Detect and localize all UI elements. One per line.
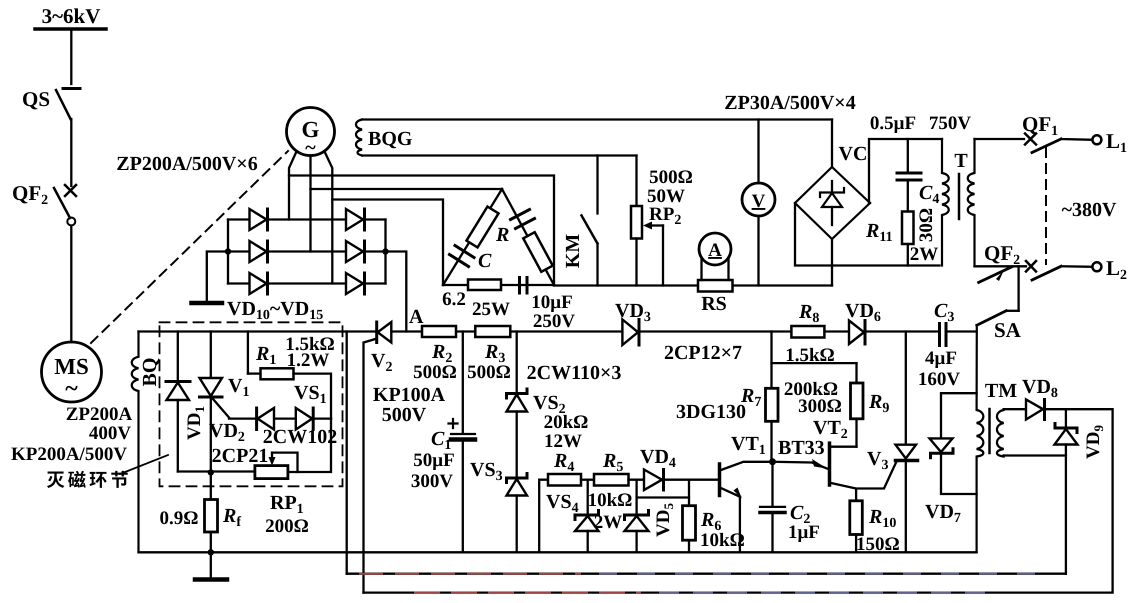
svg-text:RS: RS (701, 293, 727, 315)
excitation box bottom wire (139, 551, 977, 553)
svg-text:ZP200A/500V×6: ZP200A/500V×6 (116, 153, 257, 175)
RC network bottom resistor 6.2 25W (443, 280, 554, 291)
field winding BQ on left edge of excitation box (132, 332, 139, 553)
label 灭磁环节 (47, 472, 64, 489)
junction dot VT1 collector (769, 458, 776, 465)
capacitor C1 branch (449, 332, 476, 553)
de-excitation dashed box (160, 322, 343, 486)
resistor R5 (594, 474, 629, 486)
wire QF1 to L1 (1061, 138, 1092, 141)
svg-text:10kΩ: 10kΩ (588, 490, 633, 511)
svg-text:4μF: 4μF (925, 348, 957, 369)
svg-text:VC: VC (839, 143, 868, 165)
zener VS1a (2CW102) (257, 408, 274, 430)
dashed link QF1-QF2 (1045, 148, 1047, 264)
junction dot V1 cathode (208, 469, 214, 475)
resistor R7 branch (766, 332, 779, 462)
wire VD8 to right edge and trigger line3 (364, 409, 1113, 592)
svg-text:10μF: 10μF (531, 292, 572, 313)
wire T secondary bottom to QF2 (975, 265, 1027, 267)
svg-text:750V: 750V (929, 113, 972, 134)
resistor R11 (902, 212, 914, 266)
ground (195, 552, 227, 579)
ammeter A (699, 233, 731, 280)
svg-text:V: V (752, 191, 766, 212)
svg-text:KP200A/500V: KP200A/500V (11, 444, 127, 465)
auxiliary blade QF2 with arrow (979, 267, 1012, 283)
svg-text:BQ: BQ (139, 358, 161, 387)
svg-text:25W: 25W (472, 299, 510, 320)
wire TM secondary bottom to VD9 anode (1004, 454, 1066, 456)
transformer TM core (988, 409, 991, 453)
thyristor V3 (856, 332, 917, 553)
svg-text:A: A (409, 306, 424, 328)
breaker QF1 blade (1032, 139, 1061, 153)
svg-text:500Ω: 500Ω (649, 167, 693, 188)
thyristor V2 (364, 322, 392, 593)
rheostat RP2 (631, 156, 642, 286)
wire R4-R5 junction (581, 479, 594, 481)
svg-text:BQG: BQG (368, 128, 413, 150)
excitation box top wire (139, 330, 940, 332)
svg-text:1μF: 1μF (788, 522, 820, 543)
svg-text:TM: TM (985, 380, 1017, 402)
svg-text:2CW102: 2CW102 (263, 426, 337, 448)
wire VC left vertex down and right (795, 203, 940, 266)
diode VD14 (346, 241, 365, 262)
wire negative bus to terminal bar (207, 252, 228, 302)
breaker QF2 (HV) (54, 185, 76, 226)
zener VS2 (507, 332, 528, 479)
thyristor V1 (200, 332, 230, 473)
capacitor C2 (760, 462, 785, 553)
RC network triangle: right side C (502, 189, 554, 285)
resistor R8 (791, 326, 824, 338)
svg-text:KP100A: KP100A (373, 384, 446, 406)
svg-text:R: R (495, 224, 509, 246)
unijunction transistor VT2 (773, 443, 857, 501)
svg-text:2W: 2W (910, 244, 939, 265)
resistor Rf (205, 472, 218, 552)
resistor R2 (422, 326, 456, 337)
wire BQG top to VC (831, 120, 833, 168)
trigger return line2 (347, 573, 1066, 575)
wire phase1 horizontal (289, 176, 554, 286)
potentiometer RP1 (255, 419, 331, 479)
breaker QF1 contact x (1025, 134, 1036, 145)
wire top bus to trigger return line2 (346, 332, 348, 574)
winding BQG (356, 120, 832, 156)
diode VD13 (346, 209, 365, 230)
svg-text:500Ω: 500Ω (413, 362, 457, 383)
rectifier bridge VD10~VD15 left bus (227, 220, 229, 284)
svg-text:6.2: 6.2 (442, 289, 466, 310)
wire HV drop (70, 29, 72, 84)
motor MS (42, 342, 102, 402)
svg-text:0.5μF: 0.5μF (870, 113, 916, 134)
RP2 wiper arrow (643, 222, 663, 286)
zener VS4 branch (575, 480, 599, 553)
switch KM (582, 156, 598, 286)
diode VD4 (644, 470, 719, 491)
terminal L2 (1092, 262, 1101, 271)
transformer T primary (942, 139, 949, 266)
resistor R1 (248, 332, 331, 419)
svg-text:300Ω: 300Ω (798, 396, 842, 417)
terminal L1 (1092, 135, 1101, 144)
svg-text:~380V: ~380V (1062, 199, 1117, 221)
bridge row 3 wire (228, 282, 386, 284)
resistor R4 (548, 474, 581, 486)
wire phase2 horizontal (311, 188, 503, 190)
wire SA to TM primary (box right edge) (977, 325, 984, 552)
transformer TM secondary (997, 409, 1004, 456)
svg-text:T: T (954, 150, 968, 172)
wire VC bottom to bus (831, 239, 833, 286)
svg-text:500V: 500V (382, 404, 427, 426)
zener row wire (229, 417, 331, 419)
diode VD10 (250, 209, 268, 230)
diode VD3 (622, 320, 639, 346)
svg-text:C: C (478, 250, 492, 272)
svg-text:0.9Ω: 0.9Ω (160, 508, 199, 529)
switch SA (977, 266, 1019, 325)
zener VD7 parallel to TM primary (930, 393, 977, 494)
capacitor C4 (897, 139, 921, 212)
wire phase3 horizontal (332, 200, 443, 286)
shunt RS (698, 280, 733, 292)
bus wire bottom of AC section (554, 284, 698, 286)
busbar 3~6kV (35, 27, 106, 31)
svg-text:1.5kΩ: 1.5kΩ (785, 345, 835, 366)
junction dot Rf bottom (208, 549, 214, 555)
diode VD12 (250, 273, 268, 294)
voltmeter V (742, 120, 775, 286)
svg-text:~: ~ (65, 376, 78, 402)
zener VD5 branch (625, 480, 690, 553)
wire positive bus to node A (386, 252, 407, 332)
generator G (287, 108, 335, 160)
svg-text:250V: 250V (533, 311, 576, 332)
svg-text:2CP12×7: 2CP12×7 (664, 342, 742, 364)
wire G phase2 (309, 156, 311, 252)
svg-text:KM: KM (562, 234, 584, 269)
svg-text:ZP30A/500V×4: ZP30A/500V×4 (724, 92, 855, 114)
wire R4 left lead to bottom (539, 480, 548, 553)
wire QF2-MS (70, 226, 72, 343)
wire T secondary top to QF1 (975, 138, 1025, 140)
wire G phase1 (289, 153, 296, 220)
wire TM secondary top to VD8 (1004, 408, 1026, 410)
svg-text:500Ω: 500Ω (467, 362, 511, 383)
RC network triangle: left side C (450, 246, 475, 267)
zener VS3 (507, 474, 528, 553)
bridge row 1 wire (228, 218, 386, 220)
transformer T core (958, 174, 961, 219)
svg-text:3~6kV: 3~6kV (42, 4, 101, 28)
RC network triangle: left side R (443, 189, 502, 285)
svg-text:150Ω: 150Ω (856, 534, 900, 555)
svg-text:300V: 300V (411, 471, 454, 492)
svg-text:QS: QS (22, 87, 50, 111)
svg-text:ZP200A: ZP200A (66, 404, 133, 425)
diode VD1 branch (166, 332, 190, 472)
breaker QF2 contact x (1026, 261, 1036, 272)
breaker QF2 blade (1032, 266, 1061, 280)
svg-text:VD10~VD15: VD10~VD15 (227, 298, 323, 323)
watermark tint on trigger lines (360, 574, 1040, 593)
terminal bar (negative output) (192, 301, 223, 306)
svg-text:200Ω: 200Ω (265, 516, 309, 537)
wire QS-QF2 (70, 119, 72, 186)
svg-text:SA: SA (994, 318, 1022, 342)
junction dot negative bus (225, 248, 231, 254)
RC network triangle: right side R (523, 232, 553, 272)
diode VD15 (346, 273, 365, 294)
zener VS1b (2CW102) (296, 408, 313, 430)
wire G phase3 (325, 153, 332, 284)
resistor R9 (851, 363, 864, 447)
zener VD9 (1055, 409, 1078, 574)
wire QF2 to L2 (1061, 265, 1092, 268)
transformer T secondary (968, 139, 975, 266)
resistor R3 (475, 326, 510, 337)
svg-text:20kΩ: 20kΩ (544, 412, 589, 433)
RC network bottom capacitor 10uF (520, 278, 528, 294)
junction dot positive bus (382, 248, 388, 254)
dashed link MS-G (91, 151, 288, 343)
bridge row 2 wire (228, 250, 386, 252)
svg-text:3DG130: 3DG130 (676, 401, 746, 423)
svg-text:2CW110×3: 2CW110×3 (527, 362, 622, 384)
svg-text:400V: 400V (89, 423, 132, 444)
diode VD11 (250, 241, 268, 262)
transistor VT1 (720, 462, 773, 553)
resistor R6 (683, 480, 696, 553)
svg-text:2CP21: 2CP21 (212, 445, 269, 467)
svg-text:10kΩ: 10kΩ (700, 530, 745, 551)
leader line to de-excitation box (120, 455, 168, 474)
bridge rectifier VC (795, 167, 870, 239)
svg-text:30Ω: 30Ω (916, 208, 937, 242)
svg-text:12W: 12W (544, 431, 582, 452)
diode VD8 (1026, 400, 1045, 420)
wire VC right vertex up (869, 139, 942, 203)
svg-text:BT33: BT33 (778, 437, 825, 459)
resistor R10 (850, 501, 863, 553)
svg-text:160V: 160V (918, 369, 961, 390)
svg-text:2W: 2W (594, 512, 623, 533)
wire R7-R9 node (772, 362, 857, 364)
rectifier bridge right bus (384, 220, 386, 284)
inner bottom wire of dashed box (178, 470, 255, 472)
svg-text:1.2W: 1.2W (287, 350, 330, 371)
svg-text:A: A (708, 240, 722, 261)
wire R5-VD4 junction (629, 479, 645, 481)
capacitor C3 (940, 324, 947, 346)
diode VD6 (849, 321, 865, 345)
disconnector QS (56, 89, 80, 120)
svg-text:50μF: 50μF (413, 450, 454, 471)
